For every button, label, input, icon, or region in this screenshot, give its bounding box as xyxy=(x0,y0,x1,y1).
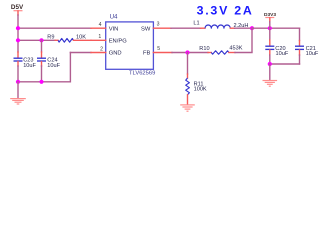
node junction D3V3 tap xyxy=(268,26,272,30)
resistor R9 xyxy=(55,39,91,43)
wire GND pin to rail xyxy=(70,52,91,54)
wire VIN horizontal xyxy=(18,27,91,29)
wire C21 to gnd rail xyxy=(299,55,301,64)
svg-text:10uF: 10uF xyxy=(23,63,36,69)
pin 1 lead xyxy=(91,39,106,41)
wire C23 to gnd rail xyxy=(17,66,19,82)
wire R11 drop xyxy=(187,53,189,75)
svg-text:3.3V 2A: 3.3V 2A xyxy=(197,3,254,17)
IC U4 TLV62569 box xyxy=(106,22,154,69)
node junction at EN tap xyxy=(16,38,20,42)
svg-text:10uF: 10uF xyxy=(47,63,60,69)
node junction gnd rail at C23 xyxy=(16,80,20,84)
resistor R11 xyxy=(186,74,190,105)
pin 4 lead xyxy=(91,27,106,29)
wire R10 up to output rail xyxy=(235,28,252,52)
wire D3V3 to rail xyxy=(269,22,271,28)
svg-text:FB: FB xyxy=(143,51,151,57)
pin 3 lead xyxy=(153,27,171,29)
wire EN horizontal left segment xyxy=(18,39,55,41)
power symbol D5V xyxy=(14,11,23,15)
capacitor C20 xyxy=(265,28,274,55)
capacitor C21 xyxy=(295,41,304,56)
wire output rail xyxy=(252,27,300,29)
svg-text:R10: R10 xyxy=(199,46,209,52)
resistor R10 xyxy=(208,51,235,54)
svg-text:R9: R9 xyxy=(47,35,54,41)
svg-text:L1: L1 xyxy=(193,20,199,26)
ground symbol left xyxy=(10,99,26,104)
svg-text:VIN: VIN xyxy=(109,26,119,32)
pin 5 lead xyxy=(153,52,172,54)
wire main vertical from D5V xyxy=(17,15,19,52)
wire C20 to gnd rail xyxy=(269,55,271,64)
wire SW to L1 xyxy=(171,27,201,29)
svg-text:D5V: D5V xyxy=(11,4,24,11)
ground symbol right xyxy=(263,81,278,87)
inductor L1 xyxy=(201,25,235,28)
svg-text:10uF: 10uF xyxy=(276,51,289,57)
node junction R11 tap xyxy=(185,50,189,54)
power symbol D3V3 xyxy=(265,18,274,22)
wire ground rail right xyxy=(270,63,300,65)
node junction C24 tap xyxy=(39,38,43,42)
wire C24 to gnd rail xyxy=(41,66,43,82)
wire ground rail left xyxy=(18,53,70,82)
node junction at VIN tap xyxy=(16,26,20,30)
svg-text:GND: GND xyxy=(109,51,122,57)
wire gnd drop right xyxy=(269,64,271,80)
wire L1 to output node xyxy=(235,27,253,29)
svg-text:10K: 10K xyxy=(76,34,86,40)
capacitor C23 xyxy=(14,52,23,66)
capacitor C24 xyxy=(37,40,46,66)
svg-text:10uF: 10uF xyxy=(306,51,319,57)
svg-text:U4: U4 xyxy=(110,13,118,20)
wire output cap rail corner xyxy=(299,28,301,40)
svg-text:TLV62569: TLV62569 xyxy=(129,70,155,76)
wire gnd symbol drop xyxy=(17,82,19,98)
node junction FB divider tap xyxy=(250,26,254,30)
node junction gnd rail at C20 xyxy=(268,62,272,66)
ground symbol under R11 xyxy=(180,105,195,111)
svg-text:3: 3 xyxy=(157,22,160,28)
pin 2 lead xyxy=(91,52,106,54)
svg-text:1: 1 xyxy=(98,34,101,40)
svg-text:4: 4 xyxy=(99,22,102,28)
svg-text:100K: 100K xyxy=(194,87,207,93)
svg-text:SW: SW xyxy=(141,26,151,32)
node junction gnd rail at C24 xyxy=(39,80,43,84)
svg-text:EN/PG: EN/PG xyxy=(109,38,128,44)
svg-text:5: 5 xyxy=(157,46,160,52)
wire FB to divider xyxy=(172,52,208,54)
svg-text:453K: 453K xyxy=(229,46,242,52)
svg-text:2: 2 xyxy=(100,46,103,52)
